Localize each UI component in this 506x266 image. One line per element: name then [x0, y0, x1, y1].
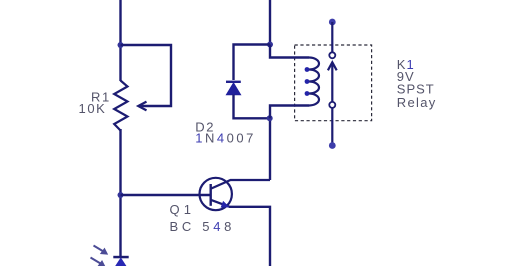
wire: left +V rail (top segment) [119, 0, 121, 81]
wire: left bus (middle segment) [119, 129, 121, 257]
photodiode light arrow 2 [91, 258, 105, 266]
photodiode D1 triangle (anode, cut by image edge) [113, 258, 128, 266]
wire: switch top lead [331, 22, 333, 52]
node: junction R1 top / wiper tap [118, 42, 124, 48]
wire: switch bottom lead [331, 108, 333, 146]
wire: D2 bottom connection [234, 95, 271, 119]
wire: coil bottom lead [270, 106, 309, 119]
node: junction D2 top / coil top [267, 42, 273, 48]
relay K1 switch fixed contact (top circle) [329, 52, 335, 58]
wire: right +V rail from top edge [269, 0, 271, 45]
wire: emitter drop to bottom edge [229, 207, 270, 266]
potentiometer R1 wiper arrowhead [138, 102, 146, 111]
svg-text:Relay: Relay [397, 95, 437, 110]
svg-text:10K: 10K [79, 101, 107, 116]
svg-text:1N4007: 1N4007 [195, 131, 256, 146]
relay K1 coil loops [309, 58, 319, 106]
node: switch bottom terminal dot [329, 142, 336, 149]
svg-text:Q1: Q1 [170, 202, 196, 217]
relay K1 coil crossover blobs [305, 67, 310, 96]
wire: collector riser [269, 118, 271, 180]
transistor Q1 base bar [209, 184, 211, 206]
relay K1 switch pivot contact (bottom circle) [329, 102, 335, 108]
relay K1 dotted enclosure [295, 45, 372, 121]
svg-text:BC 548: BC 548 [170, 219, 236, 234]
wire: coil top lead [270, 45, 309, 58]
photodiode D1 cathode bar [113, 256, 128, 258]
relay K1 switch arrowhead [328, 62, 337, 70]
transistor Q1 emitter stroke [211, 200, 230, 207]
node: junction D2 bottom / coil bottom / collector [267, 115, 273, 121]
wire: D2 top connection [234, 45, 271, 81]
transistor Q1 circle [200, 178, 232, 210]
wire: switch blade [331, 62, 333, 101]
diode D2 cathode bar [226, 81, 241, 83]
potentiometer R1 body (zigzag) [114, 81, 127, 131]
node: junction base wire [118, 192, 124, 198]
node: switch top terminal dot [329, 19, 336, 26]
diode D2 triangle [226, 83, 240, 95]
wire: base of Q1 [121, 194, 212, 196]
wire: R1 wiper loop [121, 45, 172, 106]
transistor Q1 collector stroke [211, 180, 270, 189]
photodiode light arrow 1 [94, 246, 108, 255]
transistor Q1 emitter arrowhead [221, 201, 230, 208]
